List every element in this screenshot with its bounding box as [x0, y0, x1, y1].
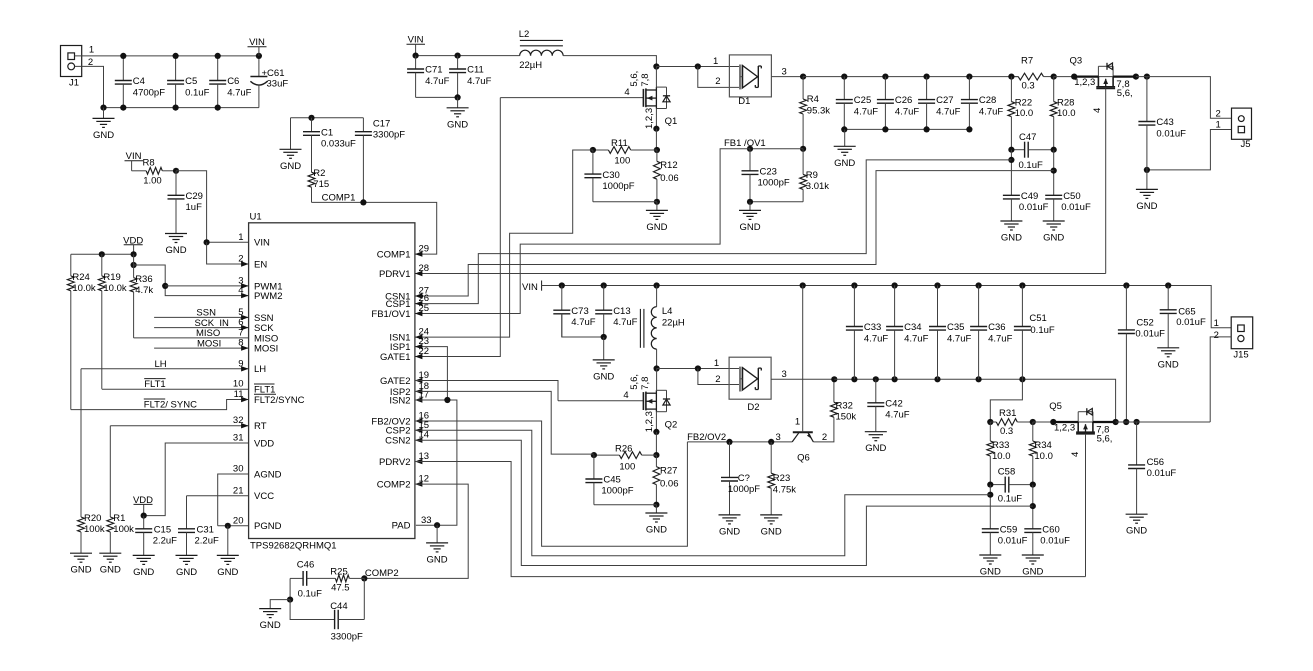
capacitor C36 [970, 286, 1012, 380]
junction C51 top [1019, 282, 1025, 288]
svg-text:D1: D1 [738, 96, 750, 107]
junction VDD C15 [141, 513, 147, 519]
junction R26 right [653, 452, 659, 458]
svg-text:Q1: Q1 [665, 116, 678, 127]
svg-text:1: 1 [89, 45, 94, 56]
junction R11 right [654, 147, 660, 153]
capacitor C61 polarized [250, 56, 288, 108]
svg-text:GND: GND [1001, 233, 1022, 244]
wire D2 pin2 [698, 369, 740, 385]
wire Q1 source [655, 109, 657, 129]
junction Q3 source node [1071, 74, 1077, 80]
net label COMP2 [365, 568, 399, 579]
wire VDD to PWM tee [133, 254, 135, 277]
junction D2 pin2 branch [695, 365, 701, 371]
net label VDD (pullups) [123, 235, 143, 254]
svg-text:C45: C45 [603, 475, 620, 486]
transistor Q5 (PMOS) [1049, 401, 1112, 577]
Q6 pin3 label [776, 432, 781, 443]
svg-text:95.3k: 95.3k [807, 105, 830, 116]
junction C73 top [559, 282, 565, 288]
svg-text:R11: R11 [611, 138, 628, 149]
junction C47 left [1008, 147, 1014, 153]
svg-text:0.3: 0.3 [1000, 426, 1013, 437]
svg-text:R20: R20 [84, 513, 101, 524]
svg-text:4.7uF: 4.7uF [936, 106, 960, 117]
ground C50 [1043, 221, 1065, 244]
svg-text:L2: L2 [519, 29, 530, 40]
svg-text:4.7uF: 4.7uF [895, 106, 919, 117]
wire Q1 drain into FET [655, 67, 657, 88]
junction C34 bottom [892, 376, 898, 382]
net label FB1/OV1 [724, 138, 766, 149]
svg-text:1000pF: 1000pF [601, 486, 633, 497]
D1 pin1 label [713, 56, 718, 67]
wire PDRV1 pin28 to Q3 gate [415, 273, 1106, 275]
svg-text:GND: GND [980, 567, 1001, 578]
svg-text:GND: GND [176, 567, 197, 578]
svg-text:0.06: 0.06 [660, 173, 679, 184]
svg-text:100: 100 [619, 461, 635, 472]
svg-text:COMP2: COMP2 [377, 480, 411, 491]
svg-text:GND: GND [100, 565, 121, 576]
diode D2 (dual Schottky) [729, 357, 771, 413]
wire J5 pin1 return [1147, 130, 1232, 170]
svg-text:2: 2 [715, 76, 720, 87]
junction C1 top [308, 115, 314, 121]
junction C11 top [455, 53, 461, 59]
capacitor C34 [886, 286, 928, 380]
wire PWM branch [134, 265, 249, 296]
junction C4 top [120, 53, 126, 59]
svg-text:100: 100 [614, 156, 630, 167]
svg-text:R36: R36 [135, 274, 152, 285]
svg-text:D2: D2 [747, 402, 759, 413]
svg-text:2: 2 [822, 432, 827, 443]
svg-text:R8: R8 [143, 158, 155, 169]
ground R20 [70, 532, 92, 576]
D2 pin2 label [715, 374, 720, 385]
ground C25 rail [834, 129, 856, 168]
wire GATE1 pin22 to Q1 gate [415, 98, 500, 357]
wire J15 pin2 return [1210, 337, 1231, 422]
capacitor C58 [990, 467, 1033, 505]
svg-text:4.7uF: 4.7uF [854, 106, 878, 117]
wire MISO (from R36) [134, 337, 249, 339]
junction Q3 out A [1133, 74, 1139, 80]
ground C65 [1157, 348, 1179, 371]
svg-text:4: 4 [1092, 108, 1103, 113]
svg-text:C59: C59 [1000, 525, 1017, 536]
ground C49 [1000, 221, 1022, 244]
svg-text:C13: C13 [613, 306, 630, 317]
svg-text:1: 1 [713, 56, 718, 67]
J15 pin2 label [1214, 330, 1219, 341]
wire R28 sense [1053, 150, 1055, 196]
svg-text:R22: R22 [1015, 98, 1032, 109]
connector J5 [1232, 108, 1252, 150]
junction C28 bottom [966, 126, 972, 132]
svg-text:GND: GND [93, 130, 114, 141]
junction C46 gnd node [287, 597, 293, 603]
ground C23 [739, 202, 761, 233]
resistor R19 [98, 254, 126, 389]
svg-text:R9: R9 [806, 170, 818, 181]
ground C31 [176, 555, 198, 578]
capacitor C1 [303, 118, 356, 172]
junction C6 top [215, 53, 221, 59]
junction C25 top [841, 74, 847, 80]
wire R9 bottom to C23 bottom [750, 201, 803, 203]
svg-text:C?: C? [738, 473, 750, 484]
capacitor C60 [1024, 525, 1070, 556]
svg-text:R1: R1 [113, 513, 125, 524]
svg-text:C47: C47 [1019, 132, 1036, 143]
Q5 gate pin 4 label [1070, 452, 1081, 457]
wire FB2 node [687, 441, 792, 443]
svg-text:PDRV2: PDRV2 [379, 457, 411, 468]
svg-text:U1: U1 [250, 211, 262, 222]
capacitor C29 [168, 171, 203, 234]
wire output rail 1 [803, 76, 1018, 78]
capacitor C33 [846, 286, 888, 380]
svg-text:21: 21 [233, 485, 244, 496]
svg-text:4.7uF: 4.7uF [425, 76, 449, 87]
junction C28 top [966, 74, 972, 80]
capacitor C59 [982, 525, 1028, 556]
J15 pin1 label [1214, 318, 1219, 329]
ground R23 [760, 515, 782, 538]
ground C? [719, 515, 741, 538]
wire J1 pin2 down to GND rail [75, 66, 104, 107]
junction C4 bottom [120, 105, 126, 111]
svg-text:C6: C6 [227, 76, 239, 87]
svg-text:2: 2 [1216, 109, 1221, 120]
junction D1 pin2 branch [695, 63, 701, 69]
svg-text:GND: GND [70, 565, 91, 576]
svg-text:C26: C26 [895, 95, 912, 106]
resistor R27 [653, 455, 679, 505]
svg-text:0.01uF: 0.01uF [1176, 317, 1206, 328]
capacitor C44 [330, 578, 364, 642]
svg-text:5,6,: 5,6, [629, 374, 640, 390]
svg-text:PAD: PAD [392, 521, 411, 532]
capacitor C46 [290, 560, 322, 600]
resistor R1 [107, 426, 134, 554]
capacitor C50 [1045, 191, 1091, 221]
wire LH to R20 [80, 369, 82, 515]
svg-text:PGND: PGND [254, 521, 282, 532]
svg-text:C44: C44 [330, 601, 347, 612]
svg-text:C58: C58 [998, 467, 1015, 478]
wire CSP1 pin26 [415, 160, 1012, 304]
junction C71 top [413, 53, 419, 59]
svg-text:FB1/OV1: FB1/OV1 [371, 309, 410, 320]
svg-text:4700pF: 4700pF [133, 87, 165, 98]
capacitor C56 [1128, 422, 1176, 514]
wire ISN1 pin24 [415, 150, 593, 337]
resistor R31 [990, 408, 1033, 437]
junction R23 top [768, 439, 774, 445]
wire Q3 left lead [1074, 75, 1098, 77]
junction L4 top [654, 282, 660, 288]
junction C36 top [976, 282, 982, 288]
svg-text:1: 1 [1214, 318, 1219, 329]
resistor R23 [768, 442, 796, 515]
junction Q2 source [653, 429, 659, 435]
svg-text:GND: GND [1043, 233, 1064, 244]
svg-text:C29: C29 [186, 191, 203, 202]
junction FB1 node R4 [800, 146, 806, 152]
capacitor C43 [1138, 77, 1186, 170]
svg-text:R12: R12 [660, 160, 677, 171]
svg-text:4.7uF: 4.7uF [947, 333, 971, 344]
svg-text:C42: C42 [885, 399, 902, 410]
resistor R26 [594, 443, 657, 472]
junction C26 top [882, 74, 888, 80]
svg-text:+C61: +C61 [262, 68, 285, 79]
wire R24 drop [70, 254, 72, 276]
junction C43 top [1144, 74, 1150, 80]
svg-text:GATE2: GATE2 [380, 376, 410, 387]
wire R31 tap from lower rail [990, 379, 1022, 422]
svg-text:C30: C30 [602, 170, 619, 181]
J5 pin2 label [1216, 109, 1221, 120]
wire COMP1 top rail [291, 117, 364, 119]
junction R19 top [99, 251, 105, 257]
svg-text:1000pF: 1000pF [758, 178, 790, 189]
junction C42 top [873, 376, 879, 382]
resistor R4 [800, 77, 831, 149]
Q1 gate pin 4 label [624, 87, 629, 98]
ground C15 [133, 555, 155, 578]
capacitor C35 [929, 286, 971, 380]
svg-text:C31: C31 [197, 525, 214, 536]
junction R12 bottom [654, 199, 660, 205]
junction Q1 source [653, 126, 659, 132]
svg-text:AGND: AGND [254, 469, 282, 480]
svg-text:5,6,: 5,6, [1117, 88, 1133, 99]
svg-text:C35: C35 [947, 322, 964, 333]
wire D2 pin3 out [771, 378, 834, 380]
Q6 pin1 label [795, 417, 800, 428]
wire VCC pin21 [187, 495, 249, 497]
svg-text:C34: C34 [904, 322, 921, 333]
svg-text:C33: C33 [864, 322, 881, 333]
junction C23 bottom [747, 199, 753, 205]
junction Q5 out A [1113, 419, 1119, 425]
junction R36 node [131, 262, 137, 268]
resistor R2 [308, 168, 329, 202]
junction VIN-EN [204, 239, 210, 245]
junction CSP1 sense tap [1051, 168, 1057, 174]
junction C56 top [1134, 419, 1140, 425]
wire CSP2 pin15 loop [415, 430, 990, 555]
svg-text:4: 4 [624, 87, 629, 98]
svg-text:C28: C28 [979, 95, 996, 106]
wire Q5 left lead [1053, 421, 1078, 423]
svg-text:TPS92682QRHMQ1: TPS92682QRHMQ1 [250, 541, 337, 552]
junction R34 top [1030, 419, 1036, 425]
transistor Q3 (PMOS) [1070, 56, 1133, 274]
junction C? top [726, 439, 732, 445]
transistor Q1 (NMOS) [500, 71, 677, 129]
wire to D1 pin 1 [656, 66, 740, 68]
junction R28 top [1051, 74, 1057, 80]
wire C44 branch [290, 600, 335, 620]
svg-text:0.1uF: 0.1uF [1019, 160, 1043, 171]
svg-text:100k: 100k [84, 524, 105, 535]
junction L4 bottom / Q2 drain [654, 365, 660, 371]
svg-text:R24: R24 [72, 272, 89, 283]
svg-text:FB2/OV2: FB2/OV2 [687, 432, 726, 443]
svg-text:7,8: 7,8 [640, 377, 651, 390]
junction R22 top [1008, 74, 1014, 80]
capacitor C65 [1160, 286, 1206, 348]
svg-text:GND: GND [739, 222, 760, 233]
capacitor C25 [836, 77, 878, 130]
transistor Q2 (NMOS) [558, 374, 677, 432]
svg-text:0.1uF: 0.1uF [1030, 325, 1054, 336]
ground PAD [426, 525, 448, 565]
svg-text:0.01uF: 0.01uF [998, 536, 1028, 547]
ground C43 [1136, 170, 1158, 212]
junction C11 bottom [455, 94, 461, 100]
junction C5 bottom [173, 105, 179, 111]
capacitor C13 [595, 286, 637, 338]
wire L2 to Q1 drain corner [563, 56, 656, 67]
capacitor C71 [407, 56, 449, 98]
svg-text:C51: C51 [1029, 313, 1046, 324]
wire Q5 output rail [1116, 421, 1211, 423]
wire CSN1 pin27 [415, 171, 1054, 296]
wire R31 to Q5 [1033, 421, 1054, 423]
svg-text:GATE1: GATE1 [380, 352, 410, 363]
svg-text:715: 715 [313, 179, 329, 190]
junction C6 bottom [215, 105, 221, 111]
svg-text:0.01uF: 0.01uF [1019, 202, 1049, 213]
svg-text:J15: J15 [1233, 349, 1248, 360]
svg-text:R26: R26 [615, 443, 632, 454]
ground PGND [217, 526, 239, 578]
wire LH [81, 368, 249, 370]
wire ISN2 pin17 to PAD [415, 400, 457, 525]
svg-text:PDRV1: PDRV1 [379, 269, 411, 280]
svg-text:FLT1: FLT1 [144, 379, 165, 390]
svg-text:4.7k: 4.7k [135, 285, 153, 296]
junction C13 bottom [601, 334, 607, 340]
svg-text:R31: R31 [999, 408, 1016, 419]
svg-text:C56: C56 [1147, 457, 1164, 468]
capacitor C15 [135, 516, 177, 556]
svg-text:10.0: 10.0 [1057, 108, 1076, 119]
junction C52 bottom [1123, 419, 1129, 425]
svg-text:GND: GND [646, 222, 667, 233]
svg-text:GND: GND [133, 567, 154, 578]
resistor R36 [130, 274, 153, 338]
capacitor C17 [355, 118, 405, 203]
svg-text:FLT2/SYNC: FLT2/SYNC [254, 395, 305, 406]
svg-text:0.1uF: 0.1uF [298, 588, 322, 599]
wire COMP1 to pin29 [312, 202, 437, 254]
svg-text:R4: R4 [807, 94, 819, 105]
svg-text:VIN: VIN [522, 282, 538, 293]
junction C25 bottom [841, 126, 847, 132]
resistor R22 [1008, 77, 1033, 150]
svg-text:FLT2/ SYNC: FLT2/ SYNC [144, 400, 197, 411]
junction C33 top [851, 282, 857, 288]
svg-text:1: 1 [238, 232, 243, 243]
svg-text:20: 20 [233, 515, 244, 526]
junction Q5 source node [1050, 419, 1056, 425]
svg-text:31: 31 [233, 433, 244, 444]
svg-text:3.01k: 3.01k [806, 181, 829, 192]
capacitor C47 [1011, 132, 1053, 171]
junction C36 bottom [976, 376, 982, 382]
svg-text:22µH: 22µH [662, 317, 685, 328]
junction J1 gnd [100, 105, 106, 111]
capacitor C27 [918, 77, 960, 130]
wire SSN [154, 316, 249, 318]
svg-text:L4: L4 [662, 306, 673, 317]
net label VDD (C15) [133, 495, 153, 516]
svg-text:C1: C1 [321, 127, 333, 138]
svg-text:1000pF: 1000pF [728, 484, 760, 495]
wire Q6 emitter to R32 [813, 417, 834, 442]
net label SCK_IN [195, 318, 229, 329]
svg-text:LH: LH [254, 364, 266, 375]
wire to D2 pin1 [657, 368, 741, 370]
capacitor C4 [115, 56, 165, 108]
junction CSN2 tap [1030, 503, 1036, 509]
svg-text:3: 3 [782, 66, 787, 77]
svg-text:0.1uF: 0.1uF [185, 87, 209, 98]
junction C35 top [934, 282, 940, 288]
capacitor C11 [449, 56, 491, 98]
Q2 gate pin 4 label [623, 390, 628, 401]
ground R1 [99, 553, 121, 576]
svg-text:R27: R27 [660, 465, 677, 476]
svg-text:GND: GND [1136, 201, 1157, 212]
wire VIN rail top-left [123, 55, 259, 57]
junction CSP2 tap [987, 492, 993, 498]
resistor R32 [831, 379, 857, 422]
svg-text:COMP2: COMP2 [365, 568, 399, 579]
net label COMP1 [322, 192, 356, 203]
svg-text:GND: GND [447, 119, 468, 130]
resistor R34 [1029, 422, 1053, 485]
svg-text:GND: GND [1126, 526, 1147, 537]
svg-text:7,8: 7,8 [640, 73, 651, 86]
svg-text:R2: R2 [313, 168, 325, 179]
svg-text:2.2uF: 2.2uF [195, 536, 219, 547]
wire D1 pin3 out [771, 76, 803, 78]
wire output rail to J5 [1136, 77, 1232, 119]
svg-text:3: 3 [782, 369, 787, 380]
net label VIN (R8) [125, 151, 147, 171]
svg-text:2: 2 [715, 374, 720, 385]
svg-text:0.1uF: 0.1uF [998, 494, 1022, 505]
svg-text:C60: C60 [1042, 525, 1059, 536]
svg-text:Q5: Q5 [1049, 401, 1062, 412]
connector J15 [1231, 317, 1253, 361]
diode D1 (dual Schottky) [729, 55, 771, 107]
svg-text:0.01uF: 0.01uF [1156, 128, 1186, 139]
svg-text:10.0: 10.0 [1034, 451, 1053, 462]
junction C52 top [1123, 282, 1129, 288]
svg-text:VIN: VIN [254, 238, 270, 249]
ground J1 [93, 108, 115, 141]
